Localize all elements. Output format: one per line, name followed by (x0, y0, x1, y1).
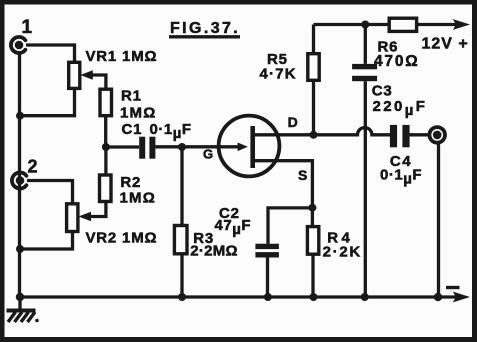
ground (7, 297, 39, 322)
svg-text:VR2 1MΩ: VR2 1MΩ (86, 229, 158, 246)
junction dot left rail / ground (16, 293, 24, 301)
wire node to C1 (106, 145, 139, 148)
svg-text:VR1 1MΩ: VR1 1MΩ (86, 48, 158, 65)
wire C3 bottom to ground rail (364, 81, 367, 297)
wire jack J3 down to ground rail (437, 143, 440, 298)
svg-text:470Ω: 470Ω (374, 53, 420, 70)
jack J3 (output) (429, 127, 445, 143)
junction dot left rail / VR1 (16, 112, 24, 120)
svg-text:1: 1 (22, 17, 33, 38)
label R5 4.7K (260, 51, 297, 83)
wire source node to C2 (268, 208, 312, 244)
title FIG.37. (169, 20, 240, 37)
wiper arrow VR2 (78, 202, 106, 222)
wire R5 leads (312, 25, 315, 135)
svg-text:G: G (203, 147, 213, 162)
arrow 12V+ supply (453, 19, 471, 30)
wire jack2 to VR2 top (27, 181, 73, 204)
wire R4 bottom to ground rail (311, 254, 314, 297)
resistor R5 (308, 54, 319, 81)
svg-text:2·2MΩ: 2·2MΩ (190, 243, 238, 260)
wire VR2 bottom to left rail (20, 232, 73, 250)
svg-text:D: D (288, 114, 298, 130)
resistor R6 (389, 18, 416, 31)
wire source node to R4 (311, 208, 314, 227)
label C4 0.1µF (380, 153, 422, 187)
svg-text:4·7K: 4·7K (260, 66, 297, 83)
wire left rail (18, 52, 21, 297)
junction dot top rail / C3 (361, 21, 369, 29)
wire C4 to jack J3 (410, 133, 430, 136)
potentiometer VR1 (69, 62, 80, 88)
wire source to source node (253, 161, 313, 208)
junction dot C3/ground rail (361, 293, 369, 301)
resistor R2 (100, 175, 112, 202)
resistor R3 (174, 226, 187, 254)
jack J2 (12, 173, 26, 189)
svg-text:FIG.37.: FIG.37. (170, 20, 240, 37)
wire C2 bottom to ground rail (266, 257, 269, 297)
wiper arrow VR1 (80, 70, 106, 89)
svg-text:R1: R1 (121, 87, 142, 104)
junction dot jack line/ground rail (434, 293, 442, 301)
node dot R1/R2/C1 (102, 143, 110, 151)
label R1 1MΩ (120, 87, 156, 121)
wire C1 to gate (155, 145, 239, 148)
svg-text:C3: C3 (372, 83, 393, 100)
svg-text:S: S (298, 167, 307, 183)
jack J1 (11, 37, 25, 53)
resistor R1 (100, 89, 112, 116)
wire C3 top lead (364, 25, 367, 64)
label R4 2.2K (323, 230, 362, 261)
wire R1 bottom to node (104, 116, 107, 147)
junction dot C2/ground rail (264, 293, 272, 301)
svg-text:2·2K: 2·2K (323, 244, 362, 261)
junction dot source node (308, 204, 316, 212)
junction dot R3/ground rail (178, 293, 186, 301)
capacitor C1 (139, 137, 155, 159)
label C2 47µF (215, 205, 252, 238)
wire VR1 bottom to left rail (20, 88, 75, 115)
wire jack1 to VR1 top (26, 45, 75, 62)
label R6 470Ω (374, 39, 420, 70)
capacitor C4 (390, 125, 410, 147)
junction dot R3/gate wire (178, 143, 186, 151)
junction dot drain/R5 (310, 131, 318, 139)
wire gate node down to R3 (180, 147, 183, 226)
svg-text:12V +: 12V + (422, 36, 469, 53)
svg-text:1MΩ: 1MΩ (120, 105, 156, 122)
wire top rail (314, 23, 456, 26)
potentiometer VR2 (67, 204, 78, 232)
capacitor C2 (255, 244, 279, 258)
label R2 1MΩ (120, 174, 156, 207)
resistor R4 (307, 227, 318, 255)
label C3 220µF (372, 83, 428, 120)
wire ground rail (20, 295, 455, 298)
junction dot left rail / VR2 (16, 245, 24, 253)
arrow negative supply (453, 292, 471, 303)
svg-text:2: 2 (28, 157, 38, 177)
label R3 2.2MΩ (190, 230, 238, 260)
label minus (446, 286, 460, 289)
transistor TR1 (FET) (219, 116, 280, 177)
junction dot R4/ground rail (310, 293, 318, 301)
wire R3 bottom to ground rail (180, 254, 183, 297)
svg-text:1MΩ: 1MΩ (120, 189, 156, 206)
capacitor C3 (352, 64, 377, 81)
wire drain to C4 (with hop over C3 line) (253, 128, 390, 135)
svg-text:C1: C1 (122, 121, 143, 138)
wire R2 top to node (104, 147, 107, 175)
svg-text:R2: R2 (120, 174, 141, 191)
